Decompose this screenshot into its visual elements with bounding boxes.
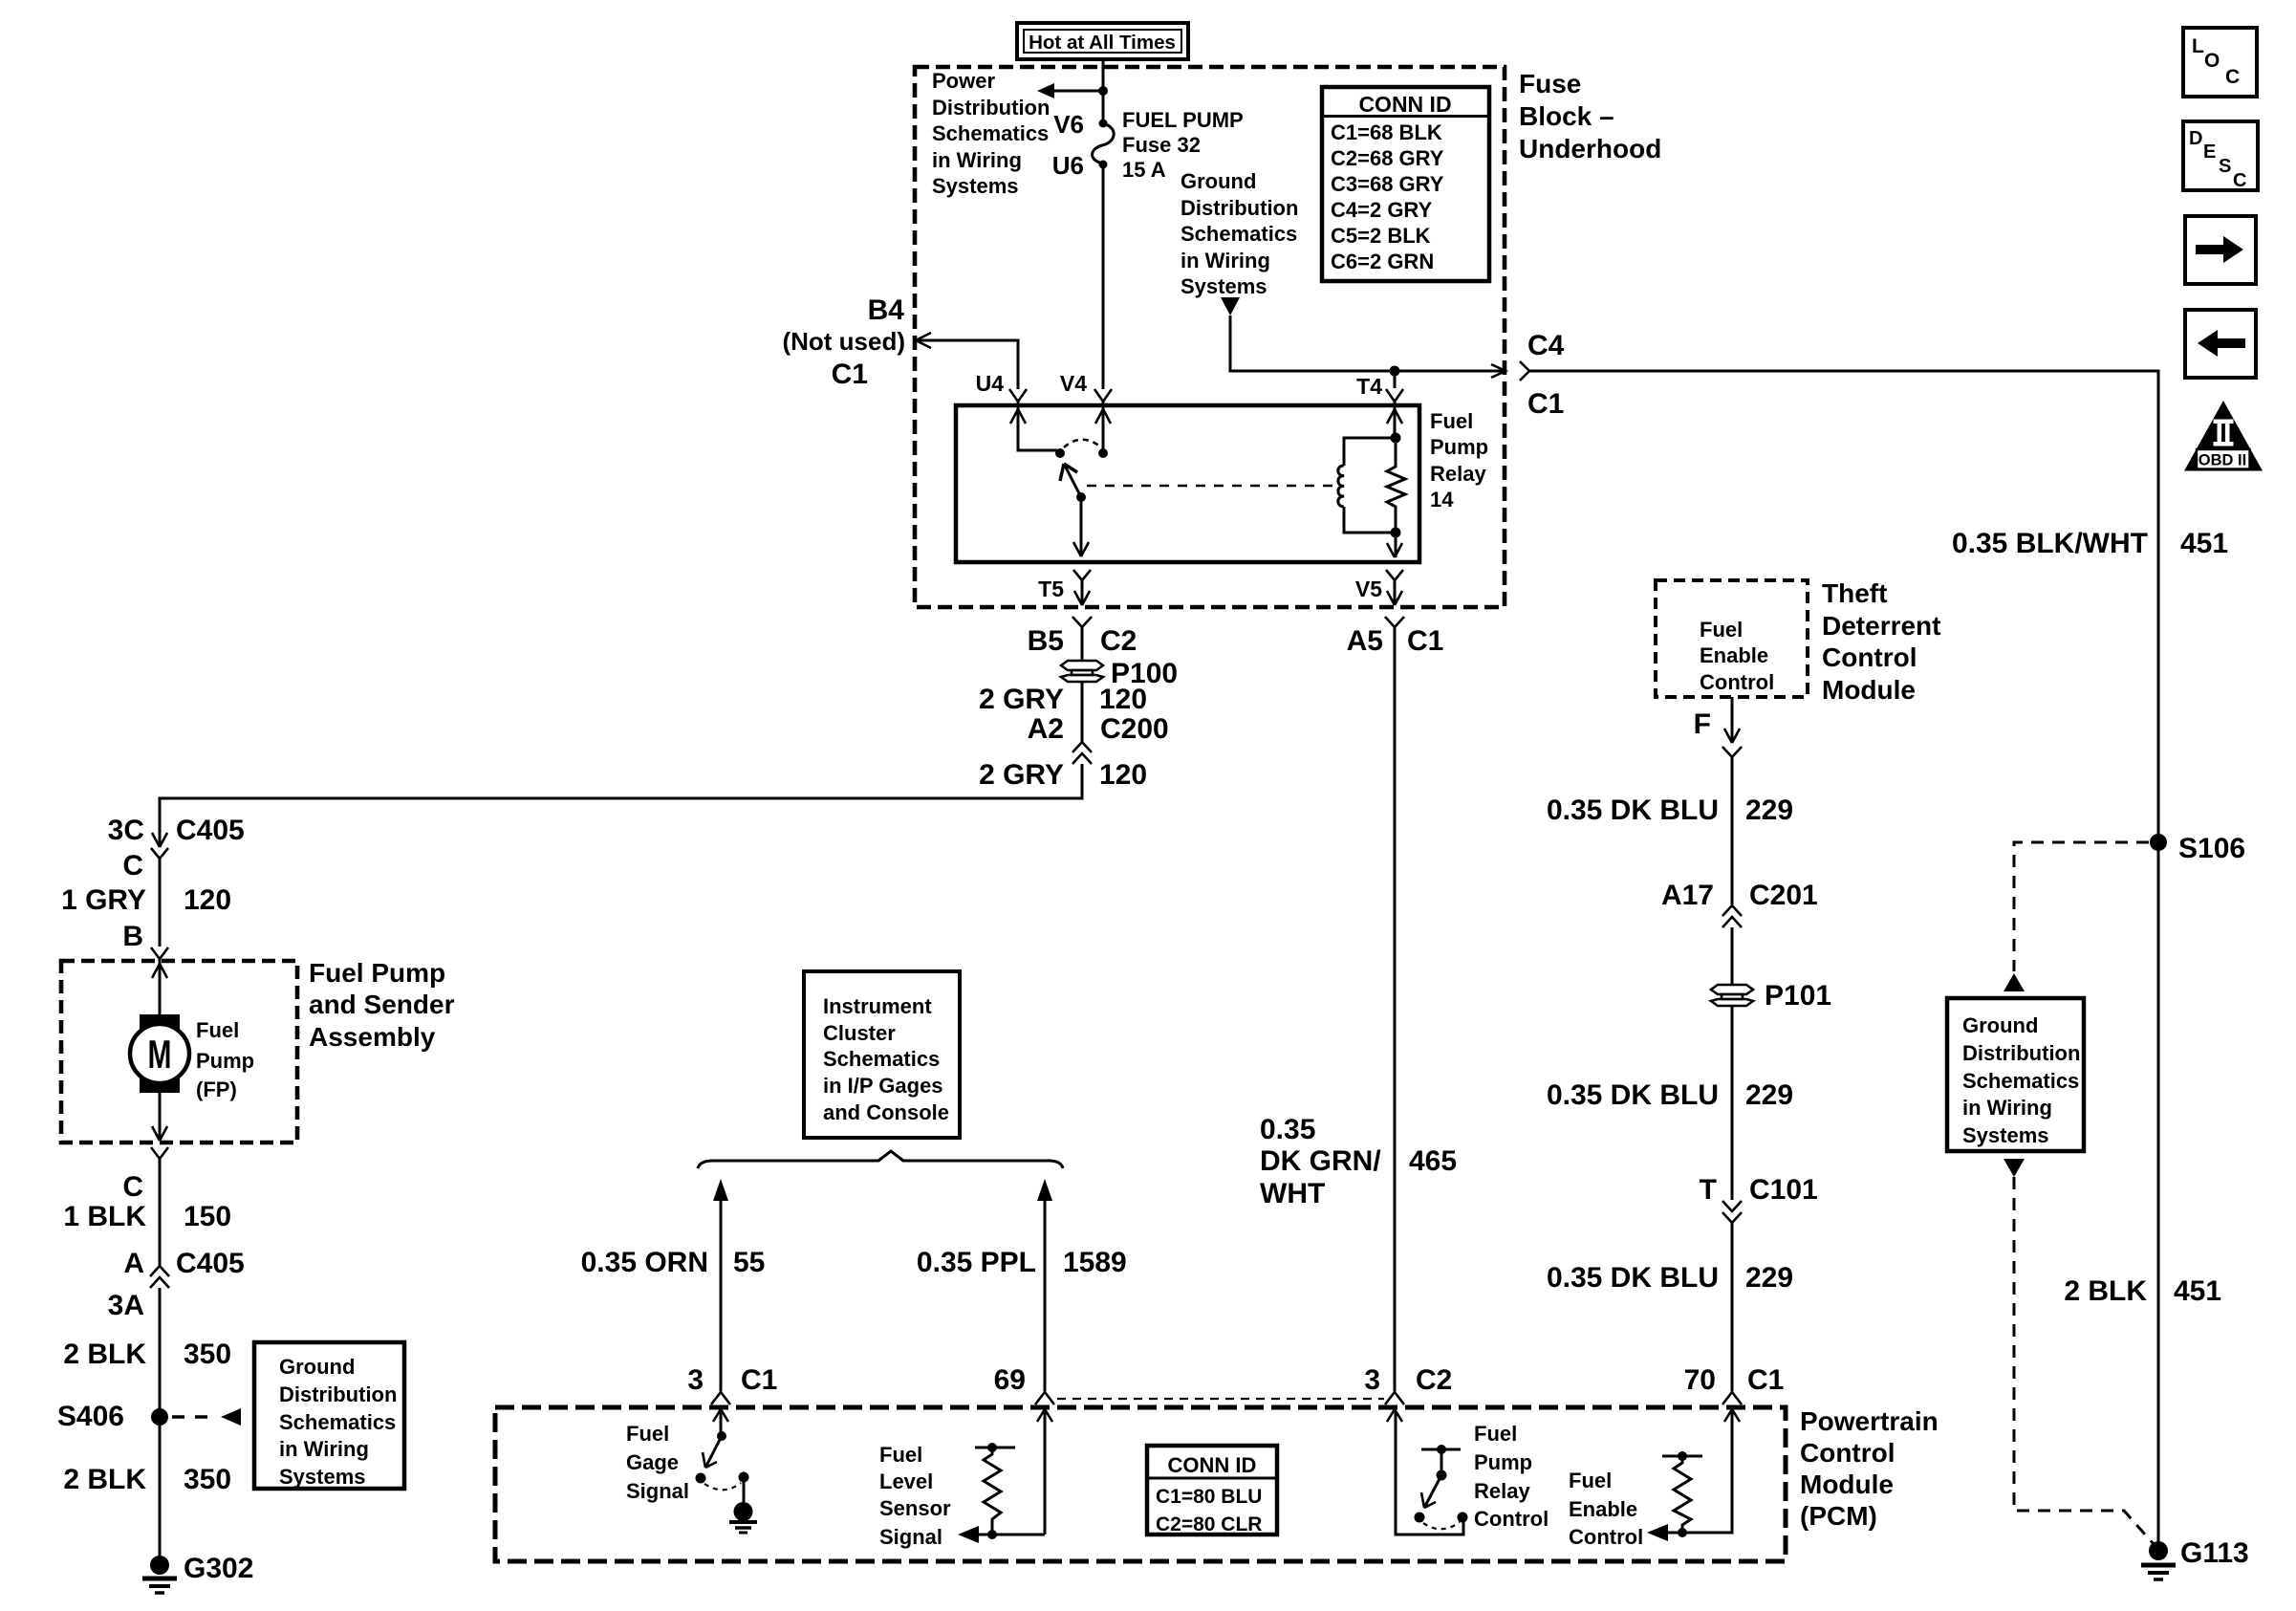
svg-text:C6=2 GRN: C6=2 GRN [1331, 250, 1434, 273]
svg-text:C: C [122, 1171, 143, 1203]
svg-text:C: C [2225, 66, 2240, 88]
svg-text:Cluster: Cluster [823, 1021, 896, 1045]
svg-text:C5=2 BLK: C5=2 BLK [1331, 224, 1431, 248]
svg-text:C101: C101 [1749, 1174, 1818, 1206]
svg-text:Fuse 32: Fuse 32 [1122, 133, 1201, 157]
svg-text:D: D [2189, 128, 2202, 149]
svg-text:3: 3 [1364, 1364, 1380, 1396]
ground (PCM internal) [729, 1502, 757, 1533]
svg-text:C: C [122, 850, 143, 882]
svg-text:Fuel: Fuel [196, 1018, 239, 1042]
svg-text:150: 150 [184, 1201, 231, 1232]
svg-text:3: 3 [687, 1364, 704, 1396]
wire: fuse to relay V4 [1102, 164, 1105, 389]
svg-text:(FP): (FP) [196, 1078, 237, 1101]
connector stack V5 to A5/C1 [1386, 570, 1403, 580]
dashed ground reference to G113 [2014, 1177, 2154, 1544]
svg-text:C1=80 BLU: C1=80 BLU [1156, 1486, 1262, 1508]
svg-text:T4: T4 [1356, 374, 1382, 399]
svg-text:Fuel: Fuel [1569, 1469, 1612, 1492]
svg-text:Pump: Pump [1474, 1450, 1532, 1474]
svg-text:70: 70 [1684, 1364, 1716, 1396]
note box: Ground Distribution Schematics in Wiring Systems (left) [254, 1342, 404, 1489]
module box: Fuel Pump and Sender Assembly (dashed) [61, 961, 297, 1143]
svg-text:E: E [2203, 142, 2216, 163]
label: Hot at All Times [1017, 23, 1188, 59]
svg-text:C4=2 GRY: C4=2 GRY [1331, 198, 1433, 222]
svg-text:Fuel: Fuel [626, 1422, 669, 1446]
off-page arrow: fuel level signal to cluster [1037, 1179, 1052, 1201]
connector cavity T4 [1386, 389, 1403, 402]
svg-text:Distribution: Distribution [1180, 196, 1298, 220]
relay switch: common pivot [1055, 448, 1065, 458]
svg-text:Fuel: Fuel [1700, 618, 1743, 642]
wire: relay control to switch [1396, 1412, 1463, 1535]
svg-text:C2=80 CLR: C2=80 CLR [1156, 1513, 1262, 1535]
off-page arrow: ground distribution reference [1221, 297, 1240, 316]
connector P100 (grommet) [1061, 661, 1103, 682]
switch: fuel pump relay driver [1421, 1448, 1461, 1451]
svg-text:FUEL PUMP: FUEL PUMP [1122, 108, 1244, 132]
fuse: FUEL PUMP Fuse 32 15A [1099, 120, 1108, 128]
svg-text:229: 229 [1745, 1079, 1793, 1111]
svg-text:Ground: Ground [1180, 169, 1256, 193]
svg-text:A: A [123, 1248, 144, 1279]
svg-text:C405: C405 [176, 1248, 245, 1279]
svg-text:A2: A2 [1028, 713, 1064, 745]
svg-text:Module: Module [1822, 675, 1916, 705]
svg-text:C2: C2 [1416, 1364, 1452, 1396]
svg-text:0.35 DK BLU: 0.35 DK BLU [1547, 1262, 1719, 1294]
wire: 0.35 DK BLU 229 to C101 [1731, 1005, 1734, 1200]
wire: 1 GRY 120 [159, 859, 162, 947]
connector cavity V4 [1094, 389, 1112, 402]
relay coil [1391, 433, 1401, 444]
relay switch blade with arrow [1064, 464, 1081, 497]
brace: instrument cluster circuits [698, 1151, 1063, 1168]
module box: Fuse Block - Underhood (dashed) [915, 67, 1505, 607]
svg-text:(Not used): (Not used) [782, 327, 905, 356]
svg-text:2 BLK: 2 BLK [63, 1464, 146, 1495]
svg-text:Gage: Gage [626, 1450, 679, 1474]
svg-text:2 GRY: 2 GRY [979, 759, 1064, 791]
wire: 451 run to right edge [1529, 371, 2158, 1542]
connector: C4 pass-through at fuse block border [1491, 364, 1505, 378]
wire: fuel enable to resistor [1657, 1412, 1732, 1533]
svg-text:0.35 DK BLU: 0.35 DK BLU [1547, 795, 1719, 826]
relay internal dashed actuator link [1087, 485, 1332, 488]
splice S406 [151, 1408, 168, 1426]
svg-text:Control: Control [1822, 642, 1917, 672]
svg-text:Powertrain: Powertrain [1800, 1406, 1939, 1436]
svg-text:F: F [1694, 708, 1711, 740]
svg-text:Schematics: Schematics [1180, 222, 1297, 246]
svg-text:Pump: Pump [196, 1049, 254, 1073]
svg-text:G302: G302 [184, 1553, 253, 1584]
wire: 1 BLK 150 [159, 1159, 162, 1267]
svg-text:Fuel: Fuel [1430, 409, 1473, 433]
icon: OBD II badge [2184, 401, 2263, 471]
svg-text:350: 350 [184, 1339, 231, 1370]
svg-text:Pump: Pump [1430, 435, 1488, 459]
svg-text:120: 120 [184, 884, 231, 916]
dashed reference from S406 [172, 1415, 218, 1419]
note box: Instrument Cluster Schematics in I/P Gages and Console [804, 971, 960, 1138]
svg-text:229: 229 [1745, 1262, 1793, 1294]
svg-text:Level: Level [879, 1469, 933, 1493]
svg-text:Theft: Theft [1822, 578, 1887, 608]
svg-text:C201: C201 [1749, 880, 1818, 911]
connector cavity B at fuel pump assembly [151, 947, 168, 959]
svg-text:and Sender: and Sender [309, 990, 455, 1019]
svg-text:O: O [2204, 50, 2220, 72]
node T4 junction [1390, 366, 1400, 377]
wire: A5/C1 down to PCM pin 3 C2 (0.35 DK GRN/WHT 465) [1394, 627, 1397, 1391]
svg-text:350: 350 [184, 1464, 231, 1495]
svg-text:Schematics: Schematics [1962, 1069, 2079, 1093]
svg-text:S106: S106 [2178, 833, 2245, 864]
svg-text:WHT: WHT [1260, 1178, 1325, 1209]
svg-text:C405: C405 [176, 815, 245, 846]
svg-text:Power: Power [932, 69, 995, 93]
svg-text:S: S [2219, 156, 2231, 177]
connector stack T5 to B5/C2 [1073, 570, 1091, 580]
svg-text:Schematics: Schematics [279, 1410, 396, 1434]
svg-text:U6: U6 [1052, 151, 1084, 180]
svg-text:T5: T5 [1038, 577, 1064, 601]
svg-text:451: 451 [2174, 1275, 2221, 1307]
svg-text:Fuel Pump: Fuel Pump [309, 958, 445, 988]
svg-text:C2: C2 [1100, 625, 1137, 657]
svg-text:15 A: 15 A [1122, 158, 1166, 182]
svg-text:1 GRY: 1 GRY [61, 884, 146, 916]
wire: 0.35 DK BLU 229 to PCM pin 70 [1731, 1223, 1734, 1391]
svg-text:120: 120 [1099, 759, 1147, 791]
wire: B pin into motor [159, 959, 162, 1014]
svg-text:Ground: Ground [1962, 1013, 2038, 1037]
svg-text:465: 465 [1409, 1145, 1457, 1177]
svg-text:C2=68 GRY: C2=68 GRY [1331, 146, 1444, 170]
wire: B4 not-used branch [917, 340, 1018, 389]
svg-text:CONN ID: CONN ID [1358, 92, 1451, 117]
svg-text:Relay: Relay [1474, 1479, 1530, 1503]
svg-text:L: L [2192, 35, 2204, 57]
svg-text:Ground: Ground [279, 1355, 355, 1379]
wire: motor to C pin [159, 1091, 162, 1141]
resistor: fuel level sensor [975, 1447, 1015, 1449]
svg-text:Control: Control [1800, 1438, 1895, 1468]
svg-text:in I/P Gages: in I/P Gages [823, 1074, 943, 1098]
off-page arrow: fuel gage signal to cluster [713, 1179, 728, 1201]
dashed ground reference from S106 [2014, 842, 2149, 971]
svg-text:V4: V4 [1060, 371, 1087, 396]
svg-text:Fuel: Fuel [1474, 1422, 1517, 1446]
relay switch: NO contact from V4 [1098, 448, 1108, 458]
svg-text:Block –: Block – [1519, 101, 1614, 131]
svg-text:A17: A17 [1661, 880, 1714, 911]
ground G113 [2141, 1541, 2176, 1579]
svg-text:Control: Control [1700, 670, 1774, 694]
svg-text:Control: Control [1474, 1507, 1549, 1531]
svg-text:120: 120 [1099, 684, 1147, 715]
splice S106 [2150, 834, 2167, 851]
icon: previous arrow button [2185, 310, 2256, 378]
wire: C201 to P101 [1731, 927, 1734, 985]
svg-text:0.35 DK BLU: 0.35 DK BLU [1547, 1079, 1719, 1111]
svg-text:14: 14 [1430, 488, 1454, 512]
wire: sensor signal with arrow [967, 1534, 1045, 1536]
svg-text:Enable: Enable [1569, 1497, 1637, 1521]
svg-text:1589: 1589 [1063, 1247, 1127, 1278]
svg-text:M: M [148, 1032, 172, 1077]
wire: T4 stub into relay [1394, 371, 1397, 388]
svg-text:C3=68 GRY: C3=68 GRY [1331, 172, 1444, 196]
wire: ground distribution to T4 and C4 [1230, 316, 1505, 371]
wire: F output of theft module [1731, 697, 1734, 743]
svg-text:Distribution: Distribution [1962, 1041, 2080, 1065]
svg-text:Assembly: Assembly [309, 1022, 436, 1052]
relay switch: dashed throw arc [1064, 440, 1100, 447]
wire: branch to power distribution (arrow left) [1051, 90, 1103, 93]
svg-text:2 GRY: 2 GRY [979, 684, 1064, 715]
svg-text:(PCM): (PCM) [1800, 1501, 1877, 1531]
svg-text:B4: B4 [868, 294, 905, 326]
wire: 2 BLK 350 upper [159, 1288, 162, 1565]
svg-text:0.35: 0.35 [1260, 1114, 1315, 1145]
svg-text:55: 55 [733, 1247, 765, 1278]
svg-text:Underhood: Underhood [1519, 134, 1661, 163]
svg-text:Systems: Systems [1180, 274, 1267, 298]
svg-text:in Wiring: in Wiring [932, 148, 1022, 172]
wire to internal ground [743, 1477, 746, 1502]
svg-text:OBD II: OBD II [2199, 452, 2246, 469]
wire: blade to T5 [1080, 497, 1083, 555]
svg-text:C1: C1 [1747, 1364, 1784, 1396]
motor: Fuel Pump (FP) [130, 1014, 189, 1093]
svg-text:3A: 3A [108, 1290, 144, 1321]
svg-text:T: T [1700, 1174, 1717, 1206]
svg-text:C4: C4 [1527, 330, 1565, 361]
svg-text:C1=68 BLK: C1=68 BLK [1331, 120, 1442, 144]
svg-text:Distribution: Distribution [932, 96, 1050, 120]
ground G302 [142, 1556, 177, 1593]
svg-text:Systems: Systems [1962, 1123, 2049, 1147]
svg-text:Signal: Signal [626, 1479, 689, 1503]
table: CONN ID (fuse block) [1322, 87, 1489, 281]
svg-text:Systems: Systems [279, 1465, 366, 1489]
wire: C200 down and across to C405 [160, 764, 1082, 845]
connector P101 (grommet) [1711, 985, 1753, 1006]
module box: Theft Deterrent Control Module (dashed) [1656, 580, 1808, 697]
wire: 0.35 DK BLU 229 to C201 [1731, 757, 1734, 904]
svg-text:Module: Module [1800, 1469, 1894, 1499]
svg-text:C200: C200 [1100, 713, 1169, 745]
svg-text:V6: V6 [1053, 110, 1084, 139]
wire: 0.35 ORN 55 [720, 1199, 723, 1391]
svg-text:0.35 BLK/WHT: 0.35 BLK/WHT [1952, 528, 2148, 559]
svg-text:S406: S406 [57, 1401, 124, 1432]
svg-text:Fuel: Fuel [879, 1443, 922, 1467]
svg-text:Schematics: Schematics [932, 121, 1049, 145]
svg-text:Relay: Relay [1430, 462, 1486, 486]
svg-text:P101: P101 [1765, 980, 1831, 1012]
svg-text:C1: C1 [1407, 625, 1443, 657]
svg-text:CONN ID: CONN ID [1168, 1453, 1257, 1477]
svg-text:Enable: Enable [1700, 643, 1768, 667]
svg-text:G113: G113 [2180, 1537, 2249, 1569]
svg-text:in Wiring: in Wiring [1962, 1096, 2052, 1120]
resistor: fuel enable [1662, 1455, 1702, 1458]
icon: DESC button [2183, 121, 2258, 191]
table: CONN ID (PCM) [1147, 1446, 1277, 1535]
svg-text:2 BLK: 2 BLK [2064, 1275, 2147, 1307]
svg-text:3C: 3C [108, 815, 144, 846]
relay: Fuel Pump Relay 14 (box) [956, 405, 1419, 562]
svg-text:U4: U4 [976, 371, 1005, 396]
svg-text:2 BLK: 2 BLK [63, 1339, 146, 1370]
svg-text:451: 451 [2180, 528, 2228, 559]
node: junction at hot feed [1098, 86, 1108, 96]
switch: fuel gage signal driver [717, 1431, 726, 1441]
svg-text:Deterrent: Deterrent [1822, 611, 1940, 641]
svg-text:A5: A5 [1347, 625, 1383, 657]
svg-text:B5: B5 [1028, 625, 1064, 657]
wire: 0.35 PPL 1589 [1044, 1199, 1047, 1391]
svg-text:and Console: and Console [823, 1100, 949, 1124]
note box: Ground Distribution Schematics in Wiring Systems (right) [1947, 998, 2084, 1151]
svg-text:Hot at All Times: Hot at All Times [1029, 32, 1176, 54]
wire: hot feed from Hot at All Times into fuse block [1102, 59, 1105, 122]
svg-text:Signal: Signal [879, 1525, 942, 1549]
svg-text:in Wiring: in Wiring [279, 1437, 369, 1461]
wire: coil to V5 [1395, 533, 1397, 557]
relay coil suppression resistor [1387, 438, 1405, 533]
svg-text:229: 229 [1745, 795, 1793, 826]
svg-text:Control: Control [1569, 1525, 1643, 1549]
svg-text:0.35 ORN: 0.35 ORN [581, 1247, 708, 1278]
svg-text:B: B [122, 921, 143, 952]
svg-text:Schematics: Schematics [823, 1047, 940, 1071]
svg-text:V5: V5 [1355, 577, 1382, 601]
icon: LOC button [2183, 28, 2257, 97]
svg-text:C1: C1 [832, 359, 868, 390]
dashed internal link pin 69 to pin 3 C2 [1057, 1398, 1384, 1400]
module box: Powertrain Control Module PCM (dashed) [495, 1407, 1786, 1561]
svg-text:C: C [2233, 170, 2246, 191]
connector cavity U4 [1009, 389, 1027, 402]
svg-text:Fuse: Fuse [1519, 69, 1581, 98]
svg-text:Systems: Systems [932, 174, 1019, 198]
svg-text:in Wiring: in Wiring [1180, 249, 1270, 272]
icon: next arrow button [2185, 216, 2256, 284]
svg-text:C1: C1 [1527, 388, 1564, 420]
svg-text:0.35 PPL: 0.35 PPL [917, 1247, 1036, 1278]
svg-text:Distribution: Distribution [279, 1382, 397, 1406]
svg-text:Instrument: Instrument [823, 994, 932, 1018]
svg-text:C1: C1 [741, 1364, 777, 1396]
wire: P100 to C200 [1081, 682, 1084, 743]
connector cavity C below assembly [151, 1147, 168, 1159]
svg-text:Sensor: Sensor [879, 1496, 951, 1520]
svg-text:69: 69 [994, 1364, 1026, 1396]
svg-text:1 BLK: 1 BLK [63, 1201, 146, 1232]
svg-text:DK GRN/: DK GRN/ [1260, 1145, 1381, 1177]
